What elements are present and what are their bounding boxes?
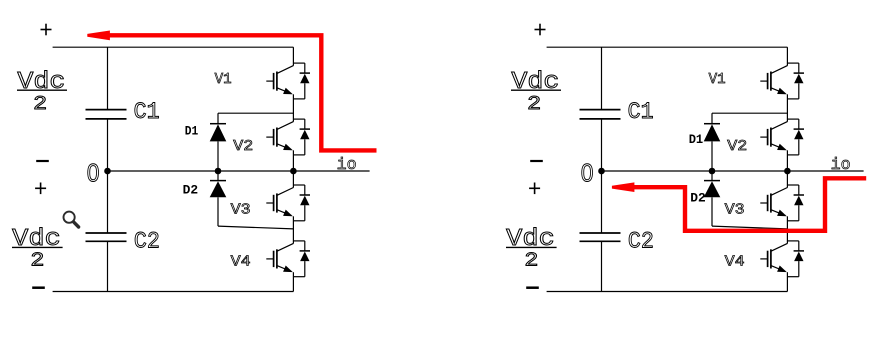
svg-text:io: io	[337, 156, 357, 175]
wire: V1-V2 junction to D1 (right)	[712, 112, 787, 114]
wire: capacitor branch middle (right)	[601, 119, 603, 232]
svg-text:C1: C1	[628, 99, 654, 126]
capacitor C1 (left)	[86, 110, 127, 119]
fraction bar lower (right)	[506, 246, 557, 248]
red current path P state (left): from io up to + rail	[107, 35, 377, 150]
wire: neutral point wire 0 (left)	[108, 170, 294, 172]
svg-text:V3: V3	[725, 202, 745, 218]
wire: D2 anode to V3/V4 junction (left)	[218, 226, 293, 229]
svg-text:2: 2	[527, 93, 541, 115]
IGBT V3	[760, 185, 799, 221]
wire: D2 anode to V3/V4 junction (right)	[712, 226, 787, 229]
IGBT V1	[760, 63, 799, 99]
red current path 0 state (right): from io to neutral 0	[633, 178, 866, 231]
svg-text:Vdc: Vdc	[511, 69, 559, 96]
wire: output io (right)	[787, 170, 863, 172]
svg-text:2: 2	[30, 249, 44, 271]
wire: main trunk V3-V4 (right)	[786, 216, 788, 243]
label + top rail (right)	[535, 24, 546, 36]
IGBT V3	[266, 185, 305, 221]
svg-text:V1: V1	[709, 72, 726, 88]
fraction bar upper (left)	[17, 89, 67, 91]
wire: main trunk V2-V3 (left)	[292, 150, 294, 187]
svg-text:D2: D2	[690, 190, 706, 205]
antiparallel diode of V4	[300, 241, 310, 277]
label - mid upper (left)	[36, 160, 49, 162]
antiparallel diode of V1	[300, 63, 310, 99]
svg-text:0: 0	[87, 160, 100, 188]
svg-text:C1: C1	[134, 99, 160, 126]
wire: main trunk segment top (left)	[292, 47, 294, 65]
wire: capacitor branch upper (right)	[601, 47, 603, 109]
antiparallel diode of V3	[794, 185, 804, 221]
IGBT V2	[760, 119, 799, 155]
label + top rail (left)	[41, 24, 52, 36]
antiparallel diode of V4	[794, 241, 804, 277]
svg-text:C2: C2	[628, 228, 654, 255]
capacitor C2 (right)	[580, 233, 621, 241]
node dot at clamp diode column (right)	[709, 168, 716, 175]
antiparallel diode of V1	[794, 63, 804, 99]
red arrowhead (right)	[612, 182, 635, 192]
wire: main trunk bottom (right)	[786, 272, 788, 291]
wire: main trunk bottom (left)	[292, 272, 294, 291]
IGBT V2	[266, 119, 305, 155]
svg-text:V2: V2	[233, 139, 253, 155]
node 0 junction dot (right)	[598, 168, 605, 175]
wire: V1-V2 junction to D1 (left)	[218, 112, 293, 114]
red arrowhead (left)	[87, 31, 110, 41]
wire: capacitor branch upper (left)	[107, 47, 109, 109]
clamp diode D2	[704, 171, 721, 226]
svg-text:C2: C2	[134, 228, 160, 255]
node dot at clamp diode column (left)	[215, 168, 222, 175]
svg-text:2: 2	[33, 93, 47, 115]
wire: top DC rail (right)	[547, 46, 788, 48]
capacitor C2 (left)	[86, 233, 127, 241]
wire: neutral point wire 0 (right)	[602, 170, 788, 172]
clamp diode D2	[210, 171, 227, 226]
svg-text:V1: V1	[215, 72, 232, 88]
wire: capacitor branch lower (left)	[107, 242, 109, 292]
svg-text:V4: V4	[231, 255, 251, 271]
wire: top DC rail (left)	[53, 46, 294, 48]
svg-text:D2: D2	[183, 182, 199, 197]
wire: bottom DC rail (left)	[53, 291, 294, 293]
svg-text:Vdc: Vdc	[17, 69, 65, 96]
IGBT V4	[760, 241, 799, 277]
wire: main trunk V2-V3 (right)	[786, 150, 788, 187]
clamp diode D1	[210, 113, 227, 171]
label + mid lower (left)	[35, 183, 46, 195]
wire: main trunk segment top (right)	[786, 47, 788, 65]
label - bottom rail (right)	[526, 286, 539, 289]
antiparallel diode of V2	[794, 119, 804, 155]
wire: bottom DC rail (right)	[547, 291, 788, 293]
svg-text:io: io	[831, 156, 851, 175]
wire: main trunk V1-V2 (right)	[786, 94, 788, 121]
svg-text:V4: V4	[725, 255, 745, 271]
label - mid upper (right)	[530, 160, 543, 162]
antiparallel diode of V3	[300, 185, 310, 221]
wire: output io (left)	[293, 170, 369, 172]
fraction bar upper (right)	[511, 89, 561, 91]
capacitor C1 (right)	[580, 110, 621, 119]
node dot at output (right)	[784, 168, 791, 175]
svg-text:D1: D1	[185, 124, 199, 139]
wire: capacitor branch middle (left)	[107, 119, 109, 232]
svg-text:2: 2	[524, 249, 538, 271]
svg-text:0: 0	[581, 160, 594, 188]
node 0 junction dot (left)	[104, 168, 111, 175]
wire: capacitor branch lower (right)	[601, 242, 603, 292]
fraction bar lower (left)	[12, 246, 63, 248]
wire: main trunk V3-V4 (left)	[292, 216, 294, 243]
label - bottom rail (left)	[32, 286, 45, 289]
wire: main trunk V1-V2 (left)	[292, 94, 294, 121]
svg-text:D1: D1	[689, 132, 704, 147]
antiparallel diode of V2	[300, 119, 310, 155]
label + mid lower (right)	[529, 183, 540, 195]
node dot at output (left)	[290, 168, 297, 175]
IGBT V1	[266, 63, 305, 99]
clamp diode D1	[704, 113, 721, 171]
IGBT V4	[266, 241, 305, 277]
svg-text:V2: V2	[727, 139, 747, 155]
svg-text:V3: V3	[231, 202, 251, 218]
magnifier cursor icon	[64, 212, 79, 227]
